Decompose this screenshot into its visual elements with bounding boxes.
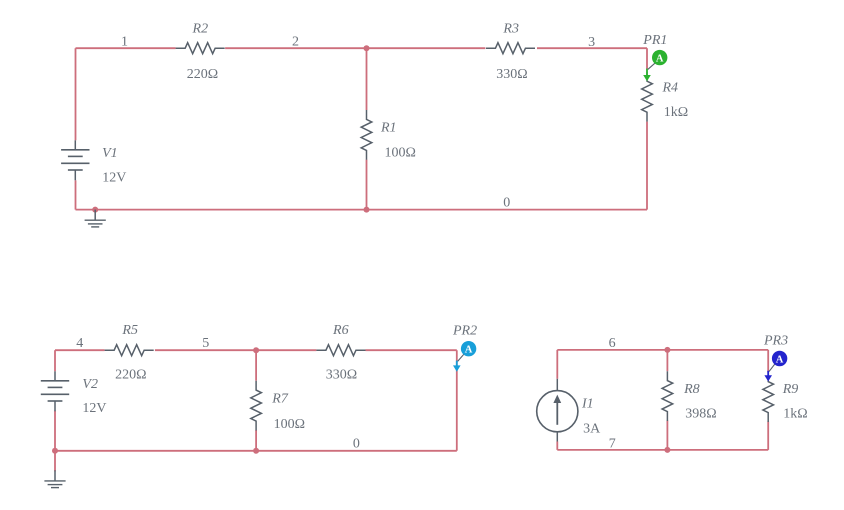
probe PR3 arrow xyxy=(767,371,769,377)
resistor R8 xyxy=(662,371,673,421)
svg-text:330Ω: 330Ω xyxy=(496,67,527,82)
wire: top segment node 5 xyxy=(155,349,317,351)
svg-text:5: 5 xyxy=(202,336,209,351)
svg-text:PR1: PR1 xyxy=(642,33,667,48)
wire: top segment node 4 xyxy=(55,349,105,351)
junction R8 bottom xyxy=(664,447,670,453)
resistor R5 xyxy=(105,345,154,356)
wire: left vertical above V2 xyxy=(54,350,56,371)
wire: left vertical below V2 xyxy=(54,411,56,451)
wire: middle vertical above R1 xyxy=(366,48,368,110)
svg-text:330Ω: 330Ω xyxy=(326,367,357,382)
resistor R3 xyxy=(486,43,535,54)
svg-text:3: 3 xyxy=(588,35,595,50)
ground (top circuit) xyxy=(94,210,96,221)
probe PR1 badge xyxy=(652,50,667,65)
resistor R1 xyxy=(361,110,372,160)
resistor R2 xyxy=(176,43,225,54)
wire: right vertical below R4 xyxy=(646,122,648,210)
svg-text:12V: 12V xyxy=(82,401,106,416)
junction R8 top xyxy=(664,347,670,353)
svg-text:I1: I1 xyxy=(581,397,594,412)
svg-text:V1: V1 xyxy=(102,146,118,161)
wire: middle vertical above R7 xyxy=(255,350,257,381)
probe PR1 arrow xyxy=(646,69,648,77)
wire: right vertical (PR2 branch) xyxy=(456,350,458,451)
svg-text:6: 6 xyxy=(609,336,616,351)
resistor R9 xyxy=(763,372,774,422)
svg-text:PR2: PR2 xyxy=(452,324,477,339)
svg-text:7: 7 xyxy=(609,437,616,452)
wire: right vertical above R9 xyxy=(767,350,769,372)
probe PR2 connector xyxy=(458,354,464,361)
junction R7 top xyxy=(253,347,259,353)
svg-text:1kΩ: 1kΩ xyxy=(783,407,807,422)
probe PR2 arrow xyxy=(456,361,458,367)
wire: node 3 segment xyxy=(537,47,647,49)
svg-text:R7: R7 xyxy=(271,392,289,407)
probe PR3 connector xyxy=(769,364,775,372)
battery V1 xyxy=(74,140,76,150)
svg-text:100Ω: 100Ω xyxy=(385,146,416,161)
wire: node 2 segment xyxy=(225,47,485,49)
resistor R7 xyxy=(251,381,262,431)
wire: right vertical above R4 xyxy=(646,48,648,69)
svg-text:398Ω: 398Ω xyxy=(685,406,716,421)
probe PR3 badge xyxy=(772,351,787,366)
svg-text:R3: R3 xyxy=(502,21,519,36)
probe PR1 connector xyxy=(648,63,655,69)
junction ground 1 xyxy=(92,207,98,213)
svg-text:220Ω: 220Ω xyxy=(115,367,146,382)
svg-text:1kΩ: 1kΩ xyxy=(664,105,688,120)
svg-text:R4: R4 xyxy=(662,81,679,96)
ground (bottom-left circuit) xyxy=(54,470,56,481)
wire: bottom horizontal (node 7) xyxy=(557,449,768,451)
svg-text:R2: R2 xyxy=(192,21,209,36)
wire: middle vertical below R1 xyxy=(366,160,368,210)
svg-text:100Ω: 100Ω xyxy=(274,417,305,432)
svg-text:220Ω: 220Ω xyxy=(187,67,218,82)
resistor R6 xyxy=(316,345,365,356)
wire: left vertical below V1 xyxy=(75,180,77,209)
wire: top horizontal (node 6) xyxy=(557,349,768,351)
junction node 2/R1 top xyxy=(364,45,370,51)
wire: left vertical above V1 xyxy=(75,48,77,140)
svg-text:0: 0 xyxy=(353,437,360,452)
current source I1 xyxy=(556,379,558,391)
wire: middle vertical below R8 xyxy=(666,421,668,450)
probe PR2 badge xyxy=(461,341,476,356)
wire: left vertical above I1 xyxy=(556,350,558,379)
svg-text:R5: R5 xyxy=(121,323,138,338)
wire: top-left horizontal (node 1) xyxy=(76,47,176,49)
svg-text:3A: 3A xyxy=(583,421,601,436)
wire: ground stub below bottom-left corner xyxy=(54,451,56,472)
junction ground 2 xyxy=(52,448,58,454)
svg-text:A: A xyxy=(656,53,664,64)
svg-text:V2: V2 xyxy=(82,377,98,392)
svg-text:R9: R9 xyxy=(782,382,799,397)
battery V2 xyxy=(54,371,56,381)
wire: top segment after R6 xyxy=(366,349,457,351)
svg-text:1: 1 xyxy=(121,35,128,50)
svg-text:12V: 12V xyxy=(102,170,126,185)
svg-text:0: 0 xyxy=(503,196,510,211)
wire: right vertical below R9 xyxy=(767,422,769,450)
junction R1 bottom xyxy=(364,207,370,213)
wire: middle vertical below R7 xyxy=(255,430,257,451)
wire: middle vertical above R8 xyxy=(666,350,668,371)
svg-text:R8: R8 xyxy=(683,382,700,397)
wire: bottom horizontal (node 0) xyxy=(76,209,648,211)
svg-text:A: A xyxy=(465,345,473,356)
resistor R4 xyxy=(642,72,653,122)
svg-text:A: A xyxy=(776,354,784,365)
svg-text:PR3: PR3 xyxy=(763,334,788,349)
svg-text:R1: R1 xyxy=(380,120,397,135)
wire: left vertical below I1 xyxy=(556,442,558,450)
svg-text:4: 4 xyxy=(76,336,83,351)
junction R7 bottom xyxy=(253,448,259,454)
svg-text:2: 2 xyxy=(292,35,299,50)
wire: bottom horizontal (node 0) xyxy=(55,450,457,452)
svg-text:R6: R6 xyxy=(332,323,349,338)
